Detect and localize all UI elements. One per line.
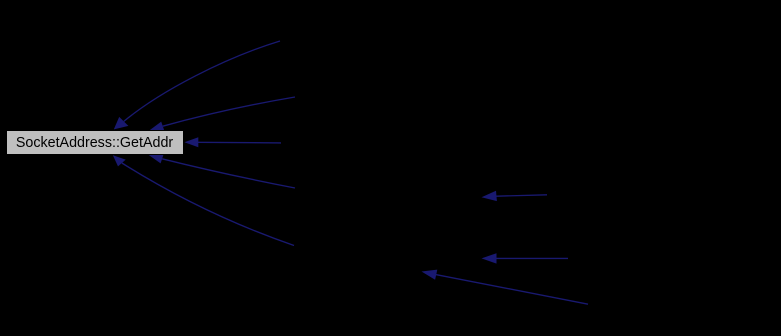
svg-text:SocketAddress::GetAddr: SocketAddress::GetAddr <box>16 135 174 151</box>
edge from caller node A (curved) <box>114 41 280 129</box>
second-level edge into node E <box>482 253 569 263</box>
edge from caller node D <box>148 154 295 188</box>
edge from caller node B <box>149 97 295 131</box>
second-level edge into node F <box>422 270 589 305</box>
edge from caller node E (curved) <box>113 155 294 245</box>
second-level edge into node D <box>482 191 548 201</box>
edge from caller node C (horizontal) <box>184 137 281 147</box>
node SocketAddress::GetAddr (highlighted grey box) <box>7 131 184 155</box>
